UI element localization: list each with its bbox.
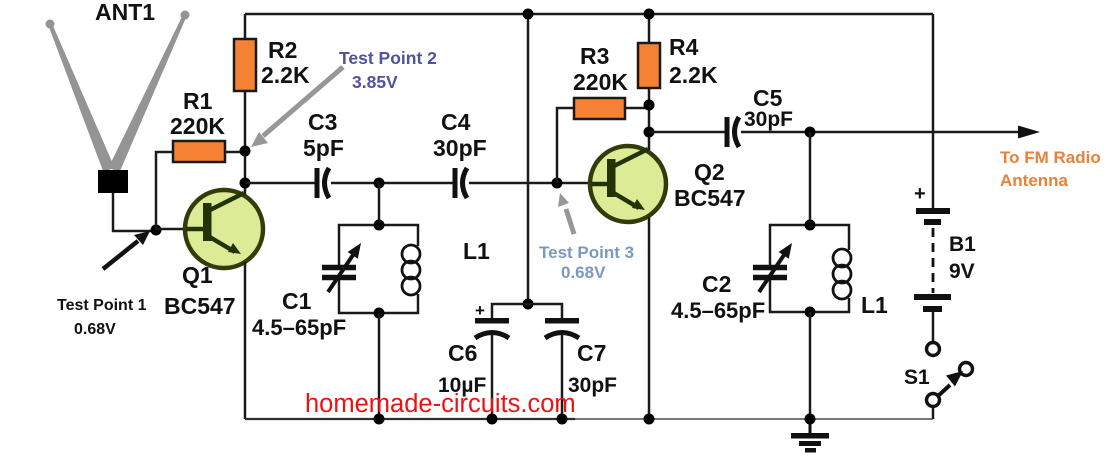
wire C5 to output arrow bbox=[741, 126, 1040, 139]
wire C6 bottom lead bbox=[491, 334, 494, 419]
svg-text:+: + bbox=[475, 301, 485, 320]
label Test Point 3 bbox=[539, 193, 634, 282]
svg-text:BC547: BC547 bbox=[674, 185, 746, 211]
inductor L1 (first tank) bbox=[379, 225, 490, 313]
svg-text:+: + bbox=[914, 183, 926, 205]
wire antenna feed bbox=[113, 193, 156, 231]
node tank1 top bbox=[374, 220, 385, 231]
node C3 branch junction bbox=[240, 178, 251, 189]
wire C6/C7 top bar bbox=[492, 304, 562, 318]
svg-text:Q2: Q2 bbox=[694, 159, 725, 185]
label Test Point 2 bbox=[251, 48, 437, 147]
svg-text:C3: C3 bbox=[308, 109, 337, 135]
svg-text:R1: R1 bbox=[183, 88, 213, 114]
svg-text:5pF: 5pF bbox=[303, 135, 344, 161]
inductor L1 (second tank) bbox=[810, 225, 888, 318]
svg-text:2.2K: 2.2K bbox=[669, 62, 718, 88]
label homemade-circuits.com bbox=[305, 390, 576, 418]
svg-text:Antenna: Antenna bbox=[1000, 171, 1069, 190]
switch S1 bbox=[904, 343, 973, 420]
svg-text:3.85V: 3.85V bbox=[352, 72, 398, 92]
wire supply drop to C6/C7 bbox=[527, 14, 530, 304]
capacitor C4 bbox=[433, 109, 487, 198]
battery B1 bbox=[914, 14, 976, 342]
antenna ANT1 bbox=[46, 0, 190, 193]
node tank1 top branch bbox=[374, 178, 385, 189]
svg-text:To FM Radio: To FM Radio bbox=[1000, 148, 1101, 167]
wire C3 to C4 bbox=[331, 182, 454, 185]
node rail: C6 bbox=[487, 414, 498, 425]
node C5 branch bbox=[644, 127, 655, 138]
svg-text:Test Point 3: Test Point 3 bbox=[539, 243, 634, 262]
svg-text:C4: C4 bbox=[441, 109, 471, 135]
node tank2 top bbox=[805, 220, 816, 231]
wire R1 left lead down to base node bbox=[156, 152, 173, 230]
transistor Q2 bbox=[590, 146, 746, 222]
svg-text:30pF: 30pF bbox=[433, 135, 487, 161]
wire R2 bottom to Q1 collector bbox=[244, 91, 247, 196]
svg-text:S1: S1 bbox=[904, 366, 930, 389]
svg-text:C6: C6 bbox=[448, 340, 477, 366]
wire Q1 emitter down bbox=[244, 262, 247, 419]
node R1/R2 junction (Test Point 2 node) bbox=[240, 146, 251, 157]
node output / tank2 branch bbox=[805, 127, 816, 138]
resistor R4 bbox=[638, 14, 718, 88]
node top rail / R4 bbox=[644, 9, 655, 20]
wire R3 left lead down to base bbox=[557, 108, 574, 183]
wire R3 right lead bbox=[625, 107, 649, 110]
wire bottom rail bbox=[245, 418, 933, 420]
svg-text:Test Point 2: Test Point 2 bbox=[339, 48, 437, 68]
svg-text:Q1: Q1 bbox=[182, 262, 213, 288]
node tank2 bottom bbox=[805, 307, 816, 318]
svg-text:9V: 9V bbox=[949, 260, 975, 283]
svg-text:L1: L1 bbox=[861, 292, 888, 318]
svg-text:0.68V: 0.68V bbox=[561, 263, 606, 282]
resistor R1 bbox=[170, 88, 225, 162]
tank circuit 1 : variable capacitor C1 bbox=[252, 225, 379, 340]
svg-text:Test Point 1: Test Point 1 bbox=[57, 297, 147, 314]
svg-text:R4: R4 bbox=[669, 34, 699, 60]
svg-text:4.5–65pF: 4.5–65pF bbox=[252, 315, 346, 340]
svg-text:30pF: 30pF bbox=[744, 108, 793, 131]
svg-text:ANT1: ANT1 bbox=[95, 0, 155, 25]
node rail: C7 bbox=[557, 414, 568, 425]
node R3 base junction bbox=[552, 178, 563, 189]
svg-text:B1: B1 bbox=[949, 233, 976, 256]
svg-text:C1: C1 bbox=[282, 288, 312, 314]
tank circuit 2 : variable capacitor C2 bbox=[671, 225, 810, 323]
capacitor C7 bbox=[545, 318, 617, 397]
svg-text:BC547: BC547 bbox=[164, 293, 236, 319]
wire C4 to Q2 base bbox=[469, 182, 591, 185]
wire tank1 drop bbox=[378, 183, 381, 225]
node rail: Q2 emitter bbox=[644, 414, 655, 425]
node top rail / C6 drop bbox=[523, 9, 534, 20]
node rail: tank1 bottom bbox=[374, 414, 385, 425]
svg-text:220K: 220K bbox=[170, 113, 225, 139]
wire tank2 drop bbox=[809, 132, 812, 225]
wire collector node to C5 bbox=[649, 131, 726, 134]
wire Q2 emitter down bbox=[648, 217, 651, 419]
capacitor C6 electrolytic bbox=[438, 301, 509, 397]
wire Q1 base bbox=[156, 228, 186, 231]
label Test Point 1 bbox=[57, 231, 150, 338]
svg-text:0.68V: 0.68V bbox=[74, 321, 116, 338]
node rail: ground bbox=[805, 414, 816, 425]
svg-text:C2: C2 bbox=[702, 271, 731, 297]
capacitor C5 bbox=[727, 85, 793, 147]
node base Q1 junction bbox=[151, 225, 162, 236]
wire R4 bottom to Q2 collector bbox=[648, 88, 651, 151]
svg-text:C7: C7 bbox=[577, 340, 606, 366]
wire tank2 bottom to rail bbox=[809, 312, 812, 419]
label To FM Radio Antenna bbox=[1000, 148, 1101, 190]
wire C7 bottom lead bbox=[561, 334, 564, 419]
svg-text:L1: L1 bbox=[463, 238, 490, 264]
wire R1 right lead bbox=[225, 151, 245, 154]
ground bbox=[791, 419, 829, 453]
resistor R3 bbox=[573, 43, 628, 119]
resistor R2 bbox=[234, 14, 310, 91]
node R3/R4 junction bbox=[644, 100, 655, 111]
svg-text:R3: R3 bbox=[580, 43, 609, 69]
node tank1 bottom bbox=[374, 308, 385, 319]
svg-text:R2: R2 bbox=[268, 37, 297, 63]
node C6 C7 common bbox=[523, 299, 534, 310]
svg-text:220K: 220K bbox=[573, 69, 628, 95]
svg-text:homemade-circuits.com: homemade-circuits.com bbox=[305, 390, 576, 418]
wire top rail bbox=[245, 13, 933, 16]
wire tank1 bottom to ground rail bbox=[378, 313, 381, 419]
svg-text:2.2K: 2.2K bbox=[261, 62, 310, 88]
transistor Q1 bbox=[164, 190, 263, 319]
capacitor C3 bbox=[303, 109, 344, 198]
svg-text:4.5–65pF: 4.5–65pF bbox=[671, 298, 765, 323]
wire collector node to C3 bbox=[245, 182, 316, 185]
